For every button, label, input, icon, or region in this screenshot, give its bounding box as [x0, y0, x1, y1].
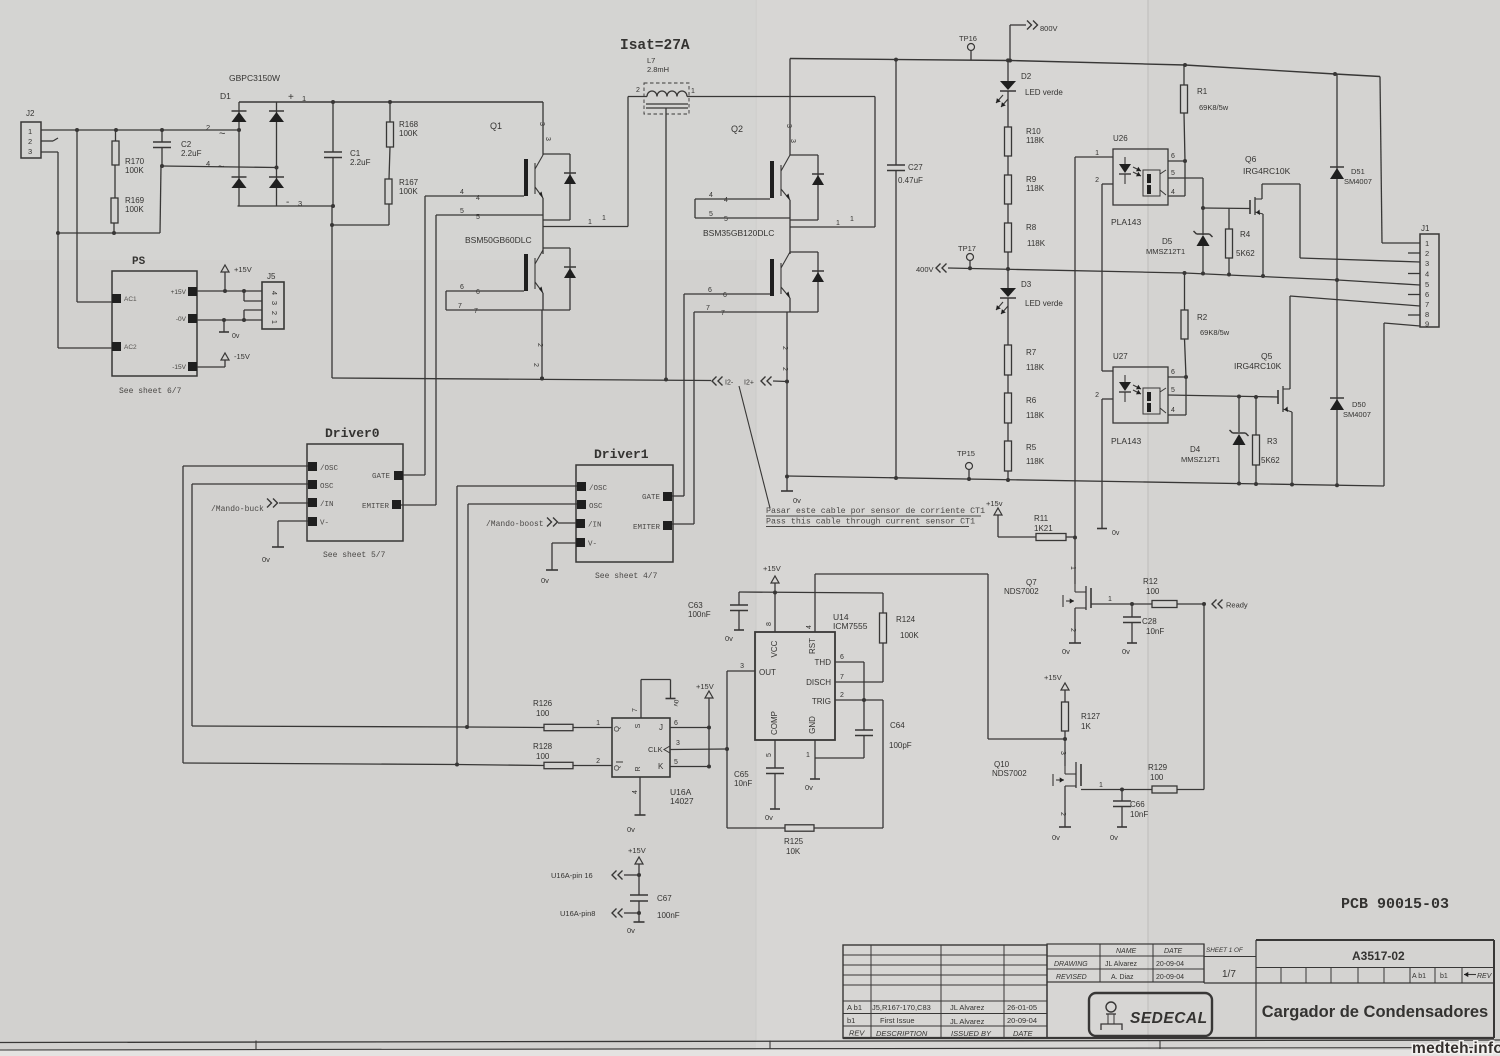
svg-text:2: 2	[206, 123, 210, 132]
svg-text:2: 2	[1095, 177, 1099, 184]
svg-text:R128: R128	[533, 742, 553, 751]
svg-text:1: 1	[691, 88, 695, 95]
svg-text:400V: 400V	[916, 265, 934, 274]
svg-text:OSC: OSC	[320, 483, 334, 491]
svg-text:20-09-04: 20-09-04	[1156, 961, 1184, 968]
svg-text:26-01-05: 26-01-05	[1007, 1003, 1037, 1012]
svg-text:1: 1	[806, 752, 810, 759]
svg-text:D51: D51	[1351, 167, 1365, 176]
svg-text:K: K	[658, 762, 664, 771]
svg-text:R1: R1	[1197, 87, 1208, 96]
svg-text:5: 5	[476, 214, 480, 221]
svg-text:3: 3	[270, 301, 279, 305]
svg-text:2: 2	[1069, 628, 1076, 632]
svg-text:7: 7	[632, 708, 639, 712]
svg-text:R6: R6	[1026, 396, 1037, 405]
svg-text:Q1: Q1	[490, 121, 502, 131]
svg-text:/IN: /IN	[588, 522, 602, 530]
svg-text:0v: 0v	[672, 700, 679, 708]
svg-text:0v: 0v	[1122, 647, 1130, 656]
svg-text:4: 4	[270, 291, 279, 295]
svg-text:C27: C27	[908, 163, 923, 172]
svg-text:1/7: 1/7	[1222, 969, 1236, 980]
svg-text:5: 5	[674, 759, 678, 766]
svg-text:R4: R4	[1240, 230, 1251, 239]
svg-text:-15V: -15V	[234, 352, 250, 361]
svg-text:DESCRIPTION: DESCRIPTION	[876, 1029, 928, 1038]
svg-text:RST: RST	[808, 638, 817, 654]
svg-text:1: 1	[1425, 239, 1429, 248]
svg-text:TP16: TP16	[959, 34, 977, 43]
svg-text:R10: R10	[1026, 127, 1041, 136]
svg-text:J5,R167-170,C83: J5,R167-170,C83	[872, 1003, 931, 1012]
svg-text:3: 3	[676, 740, 680, 747]
svg-text:2: 2	[270, 311, 279, 315]
svg-text:R129: R129	[1148, 763, 1168, 772]
svg-text:7: 7	[474, 308, 478, 315]
svg-text:6: 6	[476, 289, 480, 296]
svg-text:100: 100	[1146, 587, 1160, 596]
svg-text:C2: C2	[181, 140, 192, 149]
svg-text:118K: 118K	[1026, 363, 1045, 372]
svg-text:3: 3	[538, 122, 545, 126]
svg-text:A b1: A b1	[1412, 973, 1426, 980]
svg-text:5: 5	[766, 753, 773, 757]
svg-text:69K8/5w: 69K8/5w	[1199, 103, 1229, 112]
svg-text:A. Diaz: A. Diaz	[1111, 974, 1134, 981]
svg-text:7: 7	[706, 305, 710, 312]
svg-text:NAME: NAME	[1116, 948, 1137, 955]
svg-text:GND: GND	[808, 716, 817, 734]
svg-text:0v: 0v	[262, 555, 270, 564]
svg-text:SM4007: SM4007	[1344, 177, 1372, 186]
svg-text:Q2: Q2	[731, 124, 743, 134]
svg-text:R12: R12	[1143, 577, 1158, 586]
svg-text:4: 4	[724, 197, 728, 204]
svg-text:0v: 0v	[627, 926, 635, 935]
svg-text:1K: 1K	[1081, 722, 1091, 731]
svg-text:100K: 100K	[900, 631, 919, 640]
svg-text:6: 6	[1425, 290, 1429, 299]
svg-text:C65: C65	[734, 770, 749, 779]
svg-text:3: 3	[785, 124, 792, 128]
svg-text:V-: V-	[320, 520, 329, 528]
svg-text:2: 2	[840, 692, 844, 699]
svg-text:100K: 100K	[125, 166, 144, 175]
svg-text:R9: R9	[1026, 175, 1037, 184]
svg-text:Q: Q	[612, 765, 621, 771]
svg-text:U26: U26	[1113, 134, 1128, 143]
svg-text:R125: R125	[784, 837, 804, 846]
svg-text:A3517-02: A3517-02	[1352, 949, 1405, 963]
svg-text:1: 1	[596, 720, 600, 727]
svg-text:Cargador de Condensadores: Cargador de Condensadores	[1262, 1003, 1488, 1021]
svg-text:2: 2	[1095, 392, 1099, 399]
svg-text:R11: R11	[1034, 514, 1049, 523]
svg-text:10K: 10K	[786, 847, 801, 856]
svg-text:4: 4	[806, 625, 813, 629]
svg-text:PLA143: PLA143	[1111, 436, 1142, 446]
svg-text:D3: D3	[1021, 280, 1032, 289]
svg-text:69K8/5w: 69K8/5w	[1200, 328, 1230, 337]
svg-text:/OSC: /OSC	[320, 465, 339, 473]
svg-text:6: 6	[1171, 153, 1175, 160]
svg-text:BSM35GB120DLC: BSM35GB120DLC	[703, 228, 774, 238]
svg-text:R169: R169	[125, 196, 145, 205]
svg-text:AC2: AC2	[124, 344, 137, 351]
svg-text:0v: 0v	[805, 783, 813, 792]
svg-text:+15v: +15v	[986, 499, 1003, 508]
svg-text:First Issue: First Issue	[880, 1016, 915, 1025]
svg-text:R170: R170	[125, 157, 145, 166]
svg-text:SEDECAL: SEDECAL	[1130, 1010, 1208, 1027]
svg-text:100: 100	[536, 709, 550, 718]
svg-text:OUT: OUT	[759, 668, 776, 677]
svg-text:1: 1	[1099, 782, 1103, 789]
svg-text:7: 7	[840, 674, 844, 681]
svg-text:IRG4RC10K: IRG4RC10K	[1243, 166, 1291, 176]
svg-text:JL Alvarez: JL Alvarez	[950, 1003, 985, 1012]
svg-text:C67: C67	[657, 894, 672, 903]
svg-text:DATE: DATE	[1164, 948, 1182, 955]
svg-text:4: 4	[632, 790, 639, 794]
svg-text:1: 1	[588, 219, 592, 226]
svg-text:+15V: +15V	[763, 564, 781, 573]
svg-text:1: 1	[1095, 150, 1099, 157]
svg-text:5K62: 5K62	[1236, 249, 1255, 258]
svg-text:~: ~	[218, 161, 224, 173]
svg-text:4: 4	[460, 189, 464, 196]
svg-text:NDS7002: NDS7002	[992, 769, 1027, 778]
svg-text:DISCH: DISCH	[806, 678, 831, 687]
svg-text:/OSC: /OSC	[589, 485, 608, 493]
svg-text:C66: C66	[1130, 800, 1145, 809]
svg-text:EMITER: EMITER	[633, 524, 661, 532]
svg-text:6: 6	[840, 654, 844, 661]
svg-text:118K: 118K	[1027, 239, 1046, 248]
svg-text:See sheet 4/7: See sheet 4/7	[595, 572, 658, 581]
svg-text:1: 1	[1108, 596, 1112, 603]
svg-text:0v: 0v	[1112, 530, 1120, 537]
svg-text:ISSUED BY: ISSUED BY	[951, 1029, 992, 1038]
svg-text:TP15: TP15	[957, 449, 975, 458]
svg-text:100K: 100K	[125, 205, 144, 214]
svg-text:I2+: I2+	[744, 380, 754, 387]
svg-text:COMP: COMP	[770, 711, 779, 735]
svg-text:0v: 0v	[1062, 647, 1070, 656]
svg-text:BSM50GB60DLC: BSM50GB60DLC	[465, 235, 532, 245]
svg-text:0.47uF: 0.47uF	[898, 176, 923, 185]
svg-text:C63: C63	[688, 601, 703, 610]
svg-text:1: 1	[602, 215, 606, 222]
svg-text:0v: 0v	[232, 333, 240, 340]
svg-text:Pass this cable through curren: Pass this cable through current sensor C…	[766, 517, 975, 527]
svg-text:SM4007: SM4007	[1343, 410, 1371, 419]
svg-text:1: 1	[850, 216, 854, 223]
svg-text:2: 2	[781, 346, 788, 350]
svg-text:R3: R3	[1267, 437, 1278, 446]
svg-text:4: 4	[1171, 189, 1175, 196]
svg-text:+15V: +15V	[696, 682, 714, 691]
svg-text:6: 6	[723, 292, 727, 299]
svg-text:b1: b1	[1440, 973, 1448, 980]
svg-text:+15V: +15V	[628, 846, 646, 855]
svg-text:medteh.info: medteh.info	[1412, 1040, 1500, 1056]
svg-text:R2: R2	[1197, 313, 1208, 322]
svg-text:DRAWING: DRAWING	[1054, 961, 1088, 968]
svg-text:SHEET 1 OF: SHEET 1 OF	[1206, 947, 1244, 954]
svg-text:I2-: I2-	[725, 380, 734, 387]
svg-text:3: 3	[544, 137, 551, 141]
svg-text:D2: D2	[1021, 72, 1032, 81]
svg-text:7: 7	[458, 303, 462, 310]
svg-text:5: 5	[1171, 387, 1175, 394]
svg-text:PLA143: PLA143	[1111, 217, 1142, 227]
svg-text:-: -	[286, 197, 289, 208]
svg-text:Q10: Q10	[994, 760, 1010, 769]
svg-text:5: 5	[460, 208, 464, 215]
svg-text:J2: J2	[26, 109, 35, 118]
svg-text:3: 3	[298, 199, 302, 208]
svg-text:Driver0: Driver0	[325, 426, 380, 441]
svg-text:R167: R167	[399, 178, 419, 187]
svg-text:6: 6	[460, 284, 464, 291]
svg-text:4: 4	[476, 195, 480, 202]
svg-text:C1: C1	[350, 149, 361, 158]
svg-text:R5: R5	[1026, 443, 1037, 452]
svg-text:J5: J5	[267, 272, 276, 281]
svg-text:4: 4	[1171, 407, 1175, 414]
svg-text:0v: 0v	[793, 496, 801, 505]
svg-text:2: 2	[532, 363, 539, 367]
svg-text:GATE: GATE	[642, 494, 661, 502]
svg-text:10nF: 10nF	[734, 779, 752, 788]
svg-text:J1: J1	[1421, 224, 1430, 233]
svg-text:100K: 100K	[399, 129, 418, 138]
svg-text:100: 100	[536, 752, 550, 761]
svg-text:800V: 800V	[1040, 24, 1058, 33]
svg-text:L7: L7	[647, 56, 655, 65]
svg-text:LED verde: LED verde	[1025, 299, 1063, 308]
svg-text:0v: 0v	[765, 813, 773, 822]
svg-text:5: 5	[1425, 280, 1429, 289]
svg-text:Ready: Ready	[1226, 601, 1248, 610]
svg-text:4: 4	[1425, 270, 1429, 279]
svg-text:20-09-04: 20-09-04	[1156, 974, 1184, 981]
svg-text:NDS7002: NDS7002	[1004, 587, 1039, 596]
svg-text:C64: C64	[890, 721, 905, 730]
svg-text:AC1: AC1	[124, 296, 137, 303]
svg-text:8: 8	[766, 622, 773, 626]
svg-text:JL Alvarez: JL Alvarez	[1105, 961, 1138, 968]
svg-text:GBPC3150W: GBPC3150W	[229, 73, 280, 83]
svg-text:100nF: 100nF	[657, 911, 680, 920]
svg-text:0v: 0v	[725, 634, 733, 643]
svg-text:REV: REV	[849, 1029, 865, 1038]
svg-text:3: 3	[789, 139, 796, 143]
svg-text:b1: b1	[847, 1016, 855, 1025]
svg-text:6: 6	[708, 287, 712, 294]
svg-text:1: 1	[270, 320, 279, 324]
svg-text:CLK: CLK	[648, 745, 663, 754]
svg-text:3: 3	[1059, 751, 1066, 755]
svg-text:D5: D5	[1162, 237, 1173, 246]
svg-text:IRG4RC10K: IRG4RC10K	[1234, 361, 1282, 371]
svg-text:+15V: +15V	[171, 289, 187, 296]
svg-text:Pasar este cable por sensor de: Pasar este cable por sensor de corriente…	[766, 506, 985, 516]
svg-text:9: 9	[1425, 320, 1429, 329]
svg-text:REV: REV	[1477, 973, 1493, 980]
svg-text:Q6: Q6	[1245, 154, 1257, 164]
svg-text:/Mando-boost: /Mando-boost	[486, 520, 544, 529]
svg-text:U16A-pin8: U16A-pin8	[560, 909, 595, 918]
svg-text:GATE: GATE	[372, 473, 391, 481]
svg-text:5: 5	[724, 216, 728, 223]
svg-text:VCC: VCC	[770, 640, 779, 657]
svg-text:+15V: +15V	[1044, 673, 1062, 682]
svg-text:REVISED: REVISED	[1056, 974, 1087, 981]
svg-text:Q5: Q5	[1261, 351, 1273, 361]
svg-text:2: 2	[596, 758, 600, 765]
svg-text:MMSZ12T1: MMSZ12T1	[1181, 455, 1220, 464]
svg-text:5K62: 5K62	[1261, 456, 1280, 465]
svg-text:1K21: 1K21	[1034, 524, 1053, 533]
svg-text:2: 2	[781, 367, 788, 371]
svg-text:C28: C28	[1142, 617, 1157, 626]
svg-text:DATE: DATE	[1013, 1029, 1033, 1038]
svg-text:4: 4	[709, 192, 713, 199]
svg-text:THD: THD	[815, 658, 832, 667]
svg-text:D4: D4	[1190, 445, 1201, 454]
svg-text:R7: R7	[1026, 348, 1037, 357]
svg-text:20-09-04: 20-09-04	[1007, 1016, 1037, 1025]
svg-text:-0V: -0V	[176, 316, 187, 323]
svg-text:3: 3	[740, 663, 744, 670]
svg-text:/IN: /IN	[320, 501, 334, 509]
svg-text:100K: 100K	[399, 187, 418, 196]
svg-text:See sheet 5/7: See sheet 5/7	[323, 551, 386, 560]
svg-text:Q: Q	[612, 726, 621, 732]
svg-text:-15V: -15V	[172, 364, 186, 371]
svg-text:8: 8	[1425, 310, 1429, 319]
svg-text:+15V: +15V	[234, 265, 252, 274]
svg-text:10nF: 10nF	[1146, 627, 1164, 636]
svg-text:U27: U27	[1113, 352, 1128, 361]
svg-text:0v: 0v	[541, 576, 549, 585]
svg-text:3: 3	[1425, 259, 1429, 268]
svg-text:100pF: 100pF	[889, 741, 912, 750]
svg-text:R126: R126	[533, 699, 553, 708]
svg-text:R127: R127	[1081, 712, 1101, 721]
svg-text:2.2uF: 2.2uF	[181, 149, 202, 158]
svg-text:3: 3	[28, 147, 32, 156]
svg-text:4: 4	[206, 159, 210, 168]
svg-text:/Mando-buck: /Mando-buck	[211, 505, 264, 514]
svg-text:118K: 118K	[1026, 411, 1045, 420]
svg-text:1: 1	[28, 127, 32, 136]
svg-text:ICM7555: ICM7555	[833, 621, 868, 631]
svg-text:118K: 118K	[1026, 457, 1045, 466]
svg-text:14027: 14027	[670, 796, 694, 806]
svg-text:118K: 118K	[1026, 184, 1045, 193]
svg-text:MMSZ12T1: MMSZ12T1	[1146, 247, 1185, 256]
svg-text:2: 2	[536, 343, 543, 347]
svg-text:U16A-pin 16: U16A-pin 16	[551, 871, 593, 880]
svg-text:JL Alvarez: JL Alvarez	[950, 1017, 985, 1026]
svg-text:1: 1	[836, 220, 840, 227]
svg-text:PCB 90015-03: PCB 90015-03	[1341, 896, 1449, 913]
svg-text:See sheet 6/7: See sheet 6/7	[119, 387, 182, 396]
svg-text:2.8mH: 2.8mH	[647, 65, 669, 74]
svg-text:R8: R8	[1026, 223, 1037, 232]
svg-text:0v: 0v	[627, 825, 635, 834]
svg-text:2: 2	[28, 137, 32, 146]
svg-text:2.2uF: 2.2uF	[350, 158, 371, 167]
svg-text:EMITER: EMITER	[362, 503, 390, 511]
svg-text:1: 1	[1069, 566, 1076, 570]
svg-text:Driver1: Driver1	[594, 447, 649, 462]
svg-text:6: 6	[1171, 369, 1175, 376]
svg-text:J: J	[659, 723, 663, 732]
svg-text:PS: PS	[132, 256, 146, 268]
svg-text:5: 5	[709, 211, 713, 218]
svg-text:10nF: 10nF	[1130, 810, 1148, 819]
svg-text:0v: 0v	[1052, 833, 1060, 842]
svg-text:Q7: Q7	[1026, 578, 1037, 587]
svg-text:1: 1	[302, 94, 306, 103]
svg-text:2: 2	[1059, 812, 1066, 816]
svg-text:5: 5	[1171, 170, 1175, 177]
svg-text:0v: 0v	[1110, 833, 1118, 842]
svg-text:7: 7	[1425, 300, 1429, 309]
svg-text:100nF: 100nF	[688, 610, 711, 619]
svg-text:D1: D1	[220, 91, 231, 101]
svg-text:6: 6	[674, 720, 678, 727]
svg-text:~: ~	[219, 128, 225, 140]
svg-text:OSC: OSC	[589, 503, 603, 511]
svg-text:Isat=27A: Isat=27A	[620, 38, 690, 54]
svg-text:2: 2	[1425, 249, 1429, 258]
svg-text:D50: D50	[1352, 400, 1366, 409]
svg-text:+: +	[288, 92, 294, 103]
svg-text:R168: R168	[399, 120, 419, 129]
svg-text:S: S	[635, 723, 642, 728]
svg-text:LED verde: LED verde	[1025, 88, 1063, 97]
svg-text:2: 2	[636, 87, 640, 94]
svg-text:TRIG: TRIG	[812, 697, 831, 706]
svg-text:7: 7	[721, 310, 725, 317]
svg-text:TP17: TP17	[958, 244, 976, 253]
svg-text:118K: 118K	[1026, 136, 1045, 145]
svg-text:A b1: A b1	[847, 1003, 862, 1012]
svg-text:R: R	[635, 766, 642, 771]
svg-text:V-: V-	[588, 541, 597, 549]
svg-text:R124: R124	[896, 615, 916, 624]
svg-text:100: 100	[1150, 773, 1164, 782]
